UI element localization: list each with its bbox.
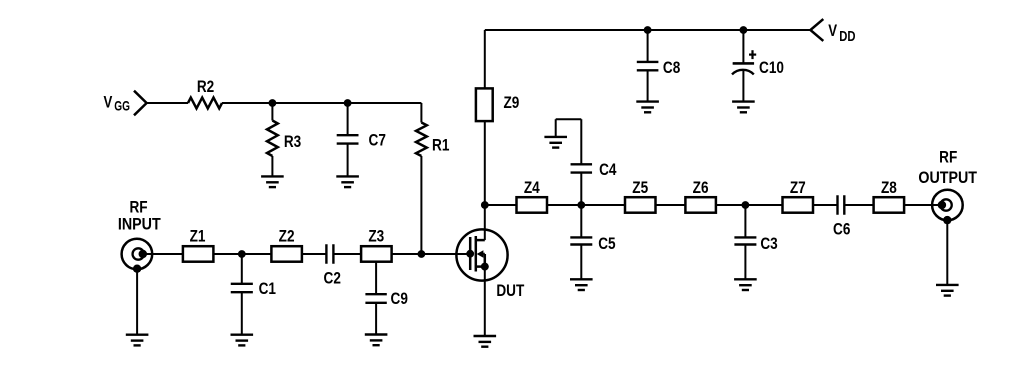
svg-text:R1: R1	[432, 136, 450, 155]
svg-text:Z9: Z9	[503, 94, 519, 113]
svg-text:Z7: Z7	[790, 179, 806, 198]
svg-text:Z1: Z1	[190, 227, 206, 246]
svg-text:DUT: DUT	[496, 282, 524, 301]
svg-text:RF: RF	[939, 148, 957, 167]
svg-text:V: V	[104, 93, 114, 112]
svg-text:C6: C6	[833, 220, 850, 239]
svg-text:R3: R3	[284, 133, 301, 152]
svg-text:Z5: Z5	[632, 179, 648, 198]
svg-text:C8: C8	[663, 59, 681, 78]
svg-text:RF: RF	[129, 198, 147, 217]
svg-text:Z4: Z4	[524, 179, 540, 198]
svg-text:C10: C10	[759, 59, 784, 78]
svg-text:OUTPUT: OUTPUT	[918, 169, 977, 187]
svg-text:Z6: Z6	[693, 179, 709, 198]
svg-text:INPUT: INPUT	[118, 216, 161, 234]
svg-text:C2: C2	[324, 269, 341, 288]
svg-text:GG: GG	[114, 98, 130, 114]
svg-text:V: V	[828, 22, 838, 41]
svg-text:C9: C9	[391, 290, 408, 309]
svg-text:Z3: Z3	[368, 227, 384, 246]
svg-text:C5: C5	[598, 235, 616, 254]
svg-text:Z2: Z2	[279, 227, 295, 246]
svg-text:C7: C7	[369, 131, 386, 150]
svg-text:C4: C4	[599, 161, 617, 180]
svg-text:Z8: Z8	[881, 179, 897, 198]
svg-text:R2: R2	[197, 78, 214, 97]
svg-text:C3: C3	[760, 234, 777, 253]
svg-text:DD: DD	[839, 28, 856, 45]
svg-text:C1: C1	[259, 280, 277, 299]
